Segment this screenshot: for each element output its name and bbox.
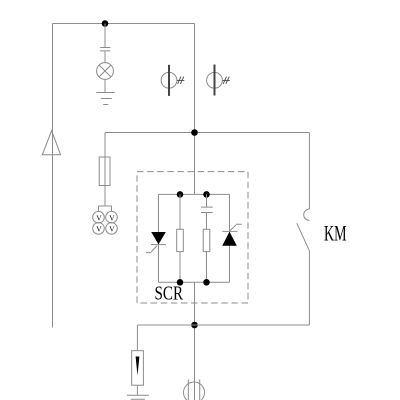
arrester F bbox=[132, 351, 144, 386]
node A (top bus tap) bbox=[102, 20, 109, 27]
label SCR bbox=[155, 284, 184, 305]
incoming feeder arrow bbox=[42, 131, 60, 155]
node D (C2 top) bbox=[203, 191, 210, 198]
node E (R1 bottom) bbox=[177, 279, 184, 286]
capacitor C1 bbox=[100, 48, 110, 51]
wire thyristor V1 branch bbox=[158, 194, 160, 282]
wire capacitor branch upper bbox=[206, 194, 208, 207]
wire left feeder vertical bbox=[52, 24, 54, 328]
wire C1 to lamp bbox=[104, 51, 106, 63]
node F (R2 bottom) bbox=[203, 279, 210, 286]
contactor KM contact bbox=[297, 209, 310, 251]
lamp HL bbox=[97, 63, 114, 80]
node G (bottom junction) bbox=[191, 322, 198, 329]
dashed SCR enclosure bbox=[137, 172, 248, 303]
wire arrester to ground bbox=[136, 385, 138, 395]
node C (R1 top) bbox=[177, 191, 184, 198]
PT winding labels V bbox=[96, 213, 115, 233]
thyristor V1 bbox=[146, 232, 166, 253]
wire bottom row horizontal bbox=[137, 324, 309, 326]
svg-text:SCR: SCR bbox=[155, 284, 184, 305]
svg-text:KM: KM bbox=[324, 221, 347, 246]
svg-text:V: V bbox=[109, 225, 115, 234]
label KM bbox=[324, 221, 347, 246]
wire lamp branch upper bbox=[104, 24, 106, 48]
wire PT tee bbox=[99, 206, 112, 211]
wire second horizontal row bbox=[105, 132, 309, 134]
wire SCR top rail bbox=[159, 193, 230, 195]
svg-text:V: V bbox=[109, 213, 115, 222]
wire thyristor V2 branch bbox=[229, 194, 231, 282]
wire PT branch vertical bbox=[104, 133, 106, 207]
charged display indicator 2 bbox=[207, 65, 230, 96]
resistor R1 bbox=[177, 229, 184, 251]
thyristor V2 bbox=[222, 224, 242, 246]
wire arrester branch upper bbox=[136, 325, 138, 351]
capacitor C2 bbox=[201, 207, 213, 212]
charged display indicator 1 bbox=[161, 65, 184, 96]
ground (arrester) bbox=[127, 395, 149, 399]
wire lamp to ground bbox=[104, 79, 106, 92]
wire resistor R1 branch bbox=[179, 194, 181, 282]
wire KM branch lower bbox=[308, 251, 310, 325]
wire top bus horizontal bbox=[53, 23, 195, 25]
wire main bus below SCR bbox=[194, 282, 196, 400]
wire main bus vertical bbox=[194, 24, 196, 195]
voltage transformer PT bbox=[93, 211, 118, 234]
wire SCR bottom rail bbox=[159, 281, 230, 283]
fuse FU bbox=[99, 157, 110, 186]
ground (lamp branch) bbox=[96, 93, 114, 105]
wire KM branch upper bbox=[308, 133, 310, 210]
svg-text:V: V bbox=[96, 213, 102, 222]
resistor R2 bbox=[203, 229, 210, 251]
svg-text:V: V bbox=[96, 225, 102, 234]
wire capacitor branch lower bbox=[206, 213, 208, 283]
current transformer machine terminal bbox=[184, 380, 205, 400]
node B (main bus junction) bbox=[191, 129, 198, 136]
